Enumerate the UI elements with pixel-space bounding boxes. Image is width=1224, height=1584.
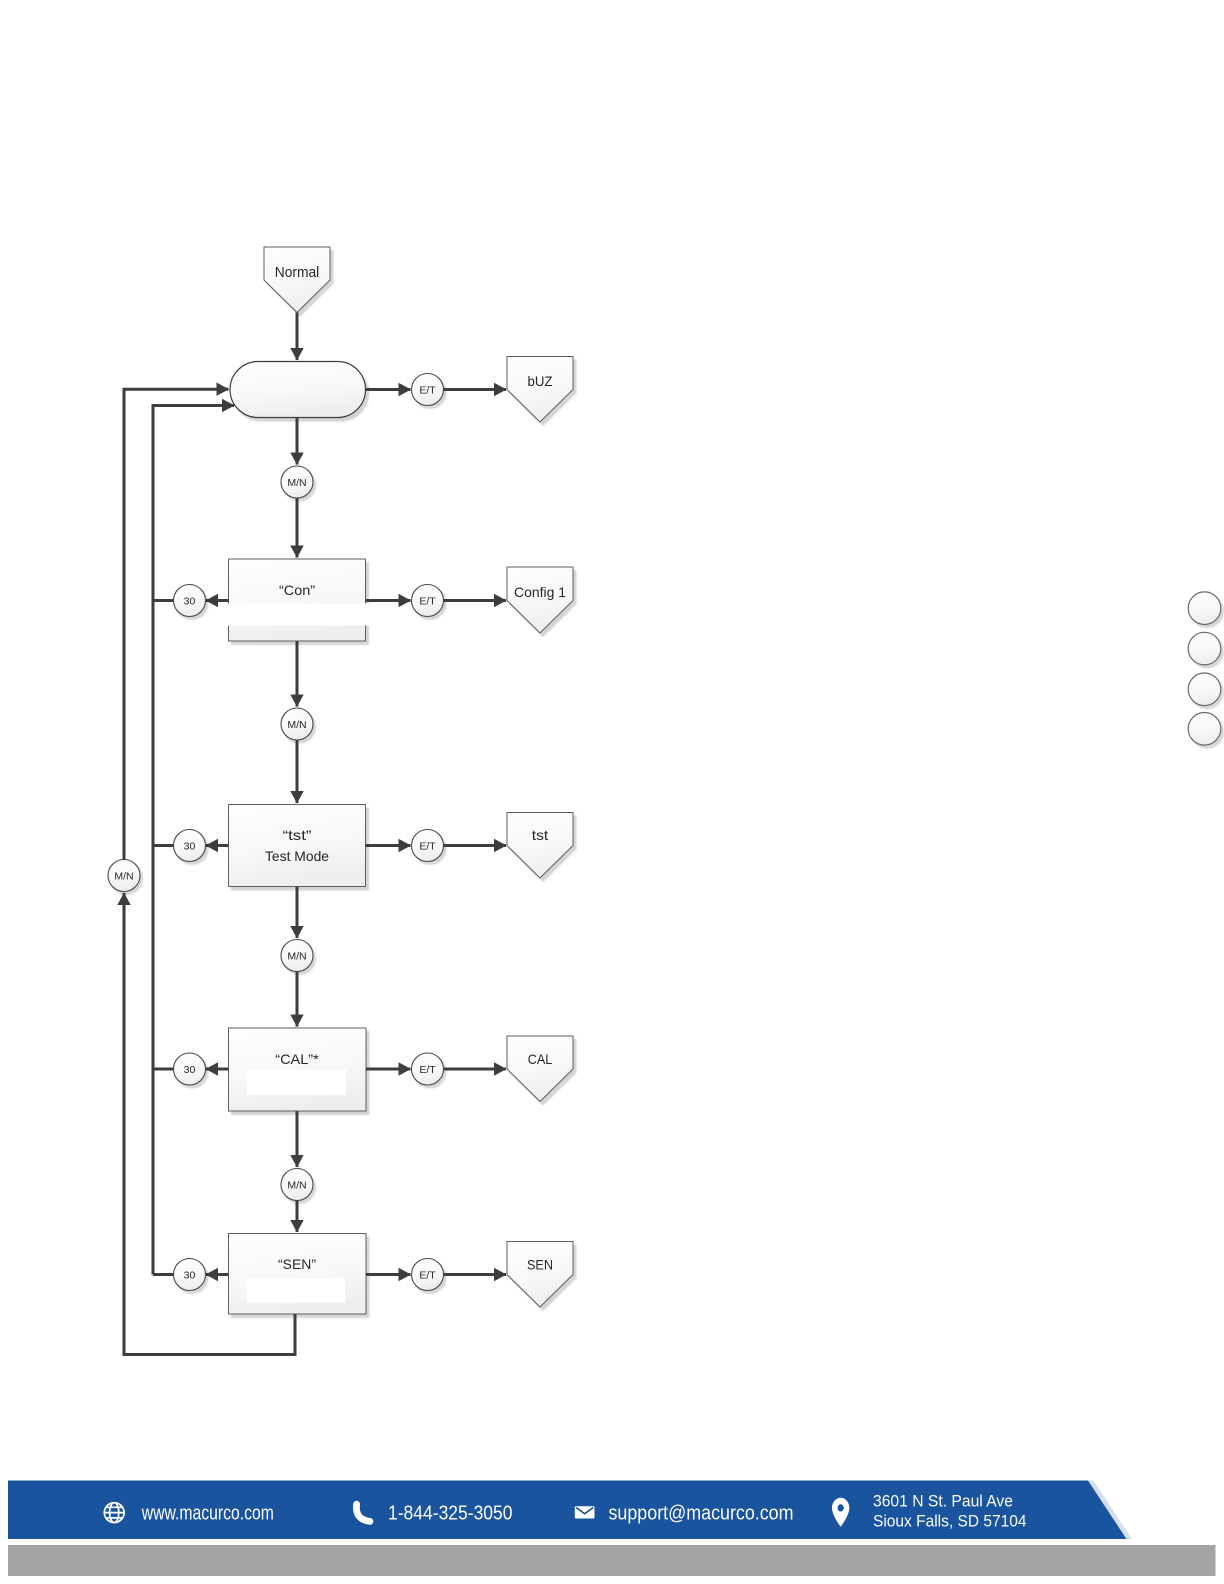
- svg-text:30: 30: [184, 1270, 196, 1282]
- footer envelope icon: [575, 1506, 595, 1518]
- svg-text:M/N: M/N: [287, 1180, 306, 1192]
- svg-text:Normal: Normal: [275, 265, 320, 281]
- box tst Test Mode: [229, 805, 366, 887]
- circle E/T row5: [412, 1259, 444, 1291]
- svg-text:30: 30: [184, 596, 196, 608]
- svg-text:30: 30: [184, 1064, 196, 1076]
- wire tst to E/T row3: [366, 844, 411, 847]
- svg-text:Test Mode: Test Mode: [265, 848, 329, 864]
- box CAL: [229, 1028, 367, 1111]
- white redaction band over Con box: [221, 604, 376, 626]
- wire Con to E/T row2: [366, 599, 411, 602]
- wire outer loop: M/N left circle up to stadium: [124, 389, 229, 859]
- svg-text:M/N: M/N: [287, 477, 306, 489]
- svg-text:E/T: E/T: [419, 385, 436, 397]
- wire E/T to bUZ: [444, 388, 507, 391]
- svg-text:M/N: M/N: [287, 719, 306, 731]
- wire stadium to M/N 1: [296, 418, 299, 465]
- wire CAL to 30 circle row4: [206, 1068, 229, 1071]
- circle bullet 2 (right margin): [1188, 632, 1221, 665]
- circle E/T row4: [412, 1053, 444, 1085]
- wire Con to 30 circle row2: [206, 599, 229, 602]
- footer globe icon: [104, 1503, 124, 1523]
- footer blue banner: [8, 1481, 1127, 1540]
- svg-text:bUZ: bUZ: [528, 373, 553, 389]
- svg-text:Config 1: Config 1: [514, 584, 566, 600]
- wire E/T row3 to tst pentagon: [444, 844, 507, 847]
- wire CAL box to M/N 4: [296, 1111, 299, 1167]
- svg-text:E/T: E/T: [419, 1064, 436, 1076]
- svg-text:E/T: E/T: [419, 841, 436, 853]
- pentagon Normal: [264, 247, 330, 313]
- circle M/N 3: [281, 940, 313, 972]
- svg-text:30: 30: [184, 841, 196, 853]
- svg-text:“SEN”: “SEN”: [278, 1256, 316, 1272]
- footer gray bar: [8, 1545, 1216, 1576]
- circle E/T row2: [412, 585, 444, 617]
- wire Con to M/N 2: [296, 641, 299, 707]
- circle M/N 4: [281, 1169, 313, 1201]
- wire E/T row4 to CAL pentagon: [444, 1068, 507, 1071]
- wire 30 row3 to inner rail: [152, 844, 174, 847]
- svg-text:Sioux Falls, SD 57104: Sioux Falls, SD 57104: [873, 1513, 1027, 1531]
- footer location pin icon: [832, 1498, 849, 1527]
- wire SEN to E/T row5: [366, 1273, 411, 1276]
- svg-text:“Con”: “Con”: [279, 582, 315, 598]
- circle 30 row5: [174, 1259, 206, 1291]
- wire M/N 4 to SEN box: [296, 1201, 299, 1233]
- box SEN: [229, 1234, 367, 1315]
- svg-text:E/T: E/T: [419, 1270, 436, 1282]
- wire M/N 1 to Con box: [296, 498, 299, 558]
- svg-text:1-844-325-3050: 1-844-325-3050: [388, 1503, 513, 1525]
- wire CAL to E/T row4: [366, 1068, 411, 1071]
- circle bullet 4 (right margin): [1188, 713, 1221, 746]
- wire Normal to stadium: [296, 313, 299, 361]
- circle M/N 2: [281, 708, 313, 740]
- wire 30 row2 to inner rail: [152, 599, 174, 602]
- pentagon bUZ: [507, 357, 573, 423]
- stadium start node: [230, 362, 366, 418]
- wire inner rail vertical: [153, 406, 234, 1275]
- svg-text:www.macurco.com: www.macurco.com: [141, 1503, 274, 1525]
- svg-text:tst: tst: [532, 827, 549, 843]
- wire tst box to M/N 3: [296, 887, 299, 939]
- svg-text:“CAL”*: “CAL”*: [275, 1051, 319, 1067]
- pentagon SEN: [507, 1242, 573, 1308]
- pentagon tst: [507, 813, 573, 879]
- pentagon CAL: [507, 1036, 573, 1102]
- svg-text:support@macurco.com: support@macurco.com: [609, 1503, 794, 1525]
- wire tst to 30 circle row3: [206, 844, 229, 847]
- svg-text:“tst”: “tst”: [283, 827, 312, 843]
- wire M/N 2 to tst box: [296, 740, 299, 803]
- svg-text:3601 N St. Paul Ave: 3601 N St. Paul Ave: [873, 1493, 1013, 1511]
- wire SEN to 30 circle row5: [206, 1273, 229, 1276]
- footer banner edge highlight: [1088, 1481, 1132, 1540]
- svg-text:M/N: M/N: [114, 871, 133, 883]
- circle E/T row1: [412, 374, 444, 406]
- circle bullet 3 (right margin): [1188, 673, 1221, 706]
- wire E/T row5 to SEN pentagon: [444, 1273, 507, 1276]
- footer phone icon: [356, 1504, 369, 1521]
- circle bullet 1 (right margin): [1188, 592, 1221, 625]
- svg-text:M/N: M/N: [287, 951, 306, 963]
- circle M/N left: [108, 860, 140, 892]
- circle E/T row3: [412, 830, 444, 862]
- wire 30 row5 to inner rail corner: [153, 1273, 174, 1276]
- wire 30 row4 to inner rail: [152, 1068, 174, 1071]
- circle M/N 1: [281, 466, 313, 498]
- wire outer loop: SEN bottom, left, up to M/N left circle: [124, 893, 295, 1355]
- wire E/T row2 to Config 1: [444, 599, 507, 602]
- box Con: [229, 559, 366, 641]
- pentagon Config 1: [507, 567, 573, 633]
- circle 30 row3: [174, 830, 206, 862]
- svg-text:CAL: CAL: [528, 1051, 553, 1067]
- wire M/N 3 to CAL box: [296, 972, 299, 1027]
- wire stadium to E/T row1: [366, 388, 411, 391]
- circle 30 row2: [174, 585, 206, 617]
- svg-text:SEN: SEN: [527, 1257, 553, 1273]
- circle 30 row4: [174, 1053, 206, 1085]
- svg-text:E/T: E/T: [419, 596, 436, 608]
